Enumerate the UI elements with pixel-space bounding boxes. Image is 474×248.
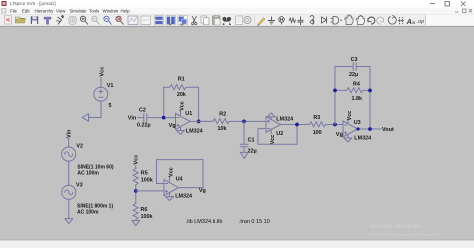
svg-text:R5: R5 [141,171,148,177]
icon: find [222,17,231,25]
op-amp U4 [164,177,179,200]
svg-text:AC 100m: AC 100m [77,171,99,177]
svg-text:100k: 100k [141,177,153,183]
icon: control panel [44,17,51,24]
resistor R1 [164,85,199,90]
svg-text:0.22µ: 0.22µ [137,122,151,128]
svg-text:.tran 0 15 10: .tran 0 15 10 [239,219,270,225]
icon: move hand [345,15,354,25]
svg-text:C1: C1 [248,137,255,143]
icon: halt hand [69,16,76,24]
icon: capacitor tool [298,17,304,26]
icon: zoom in [80,16,88,24]
svg-text:U4: U4 [176,177,183,183]
wire right vertical down to output [369,67,371,129]
wire left vertical up to C3 rail [334,67,336,125]
svg-text:R1: R1 [178,76,185,82]
svg-text:U3: U3 [354,120,361,126]
wire C1 to ground [243,147,245,153]
svg-text:Vin: Vin [128,116,137,122]
icon: redo (gray) [377,17,384,24]
ground (V3) [65,219,73,224]
icon: undo [368,17,375,24]
wire node down to C1 [243,121,245,144]
wire U2 feedback loop [258,125,297,145]
wire U3 plus stub [341,132,343,134]
node junction divider [134,189,138,193]
icon: tile horz [155,16,164,25]
resistor R2 [205,119,244,124]
wire R1 right vertical to output node [198,87,200,121]
icon: rotate [388,15,396,24]
svg-text:File Edit Hierarchy: File Edit Hierarchy View Simulate Tools … [10,9,130,14]
svg-text:1.8k: 1.8k [352,96,363,102]
icon: paste [213,15,221,25]
wire Vin to C2 [138,117,144,119]
svg-text:.lib LM324.ti.lib: .lib LM324.ti.lib [186,219,223,225]
icon: open [16,17,26,23]
svg-text:Vcc: Vcc [168,167,174,177]
wire U4 output and feedback loop [157,160,204,188]
node junction C2/R1 [162,116,166,120]
node junction R4 right [368,89,372,93]
capacitor C2 [144,114,147,122]
resistor R5 [133,169,138,185]
svg-text:5: 5 [109,103,112,109]
svg-text:Vcc: Vcc [347,111,353,121]
svg-text:100: 100 [313,130,322,136]
node junction R1/U1out [197,120,201,124]
svg-text:AC 100m: AC 100m [77,210,99,216]
icon: zoom undo [116,16,124,24]
svg-text:V3: V3 [76,183,83,189]
wire U2 output to R3 [281,124,310,126]
svg-text:R4: R4 [353,81,360,87]
svg-text:.op: .op [417,19,425,25]
svg-text:LTspice XVII - [jurnal1]: LTspice XVII - [jurnal1] [10,1,56,6]
svg-text:Vg: Vg [169,123,176,129]
app icon [2,1,7,6]
window controls [430,2,466,7]
svg-text:R3: R3 [313,115,320,121]
wire U1 output to R2 [190,120,205,122]
icon: inductor tool [310,16,314,25]
icon: drag hand [356,16,365,25]
svg-text:LM324: LM324 [186,128,203,134]
icon: zoom out (gray) [92,16,100,24]
svg-text:R2: R2 [219,112,226,118]
icon: resistor tool [289,18,296,23]
resistor R3 [309,122,335,127]
node junction feedback/Vout [368,127,372,131]
op-amp U3 [343,119,358,142]
svg-text:C3: C3 [351,57,358,63]
icon: waveform pane [128,16,138,25]
svg-text:Vcc: Vcc [99,67,105,77]
svg-text:Vin: Vin [66,129,72,138]
icon: diode tool [322,17,327,24]
icon: label tool [279,17,285,25]
svg-text:Vg: Vg [199,188,206,194]
resistor R6 [133,204,138,220]
icon: mirror [398,17,404,25]
svg-text:U1: U1 [185,111,192,117]
ground (C1) [240,152,248,158]
icon: ground tool [268,17,275,24]
icon: new schematic [5,16,12,24]
wire R1 left vertical [163,87,165,117]
icon: cut [192,16,197,25]
svg-text:10k: 10k [218,126,227,132]
node junction R2/C1/U2 [242,120,246,124]
svg-text:R6: R6 [141,207,148,213]
svg-text:Vcc: Vcc [133,155,139,165]
wire R3 to U3 minus input [335,124,343,126]
wire R2 to U2 plus input [244,120,266,122]
resistor R4 [335,88,370,93]
svg-text:20k: 20k [177,92,186,98]
wire R5 to R6 [135,185,137,204]
svg-text:A: A [406,17,412,26]
icon: wire pencil [257,18,265,26]
capacitor C3 [353,63,356,70]
svg-text:V1: V1 [107,83,114,89]
wire Vin to V2 [68,139,70,148]
svg-text:100k: 100k [141,214,153,220]
svg-text:LM324: LM324 [354,135,371,141]
op-amp U2 (mirrored) [266,113,281,134]
svg-text:U2: U2 [276,131,283,137]
icon: help spiral [244,16,251,23]
capacitor C1 [240,144,248,147]
ground (R6) [132,221,140,226]
icon: component tool [331,17,343,25]
wire R6 to ground [135,219,137,222]
wire V2 to V3 [68,161,70,185]
icon: copy [201,16,209,25]
icon: zoom full [104,16,112,24]
wire U3 output to Vout [358,128,382,130]
svg-text:22µ: 22µ [248,149,257,155]
wire C3 top rail right [356,66,370,68]
wire Vcc to R5 [135,165,137,169]
wire C3 top rail left [335,66,353,68]
voltage source V2 [62,147,76,161]
ground (V1) rotated left [82,114,88,121]
svg-text:Vcc: Vcc [179,101,185,111]
icon: tile vert [166,16,176,25]
op-amp U1 [176,111,191,134]
svg-text:22µ: 22µ [349,72,358,78]
node junction R4 left [333,89,337,93]
svg-text:Go to Settings to activate Win: Go to Settings to activate Windows. [370,232,439,237]
wire V3 to ground [68,199,70,218]
voltage source V3 [62,185,76,199]
wire V1 bottom to ground [89,101,101,117]
node junction U3out [356,127,359,130]
svg-text:Vcc: Vcc [270,135,276,145]
icon: run [56,16,63,25]
svg-text:LM324: LM324 [276,117,293,123]
icon: schematic pane (gray) [141,16,151,25]
icon: print [236,16,243,25]
status bar [0,240,474,248]
svg-text:Vout: Vout [382,127,394,133]
svg-text:V2: V2 [76,143,83,149]
wire C2 to U1 minus input [147,117,176,119]
node junction U2out/feedback [295,123,299,127]
svg-text:C2: C2 [139,108,146,114]
svg-text:Activate Windows: Activate Windows [370,223,422,230]
wire divider to U4 plus input [136,190,164,192]
icon: cascade [178,16,188,25]
node junction R3/feedback [333,123,337,127]
wire V1 top to Vcc [100,78,102,88]
icon: save [31,16,38,24]
voltage source V1 [94,87,108,101]
svg-text:LM324: LM324 [175,194,192,200]
